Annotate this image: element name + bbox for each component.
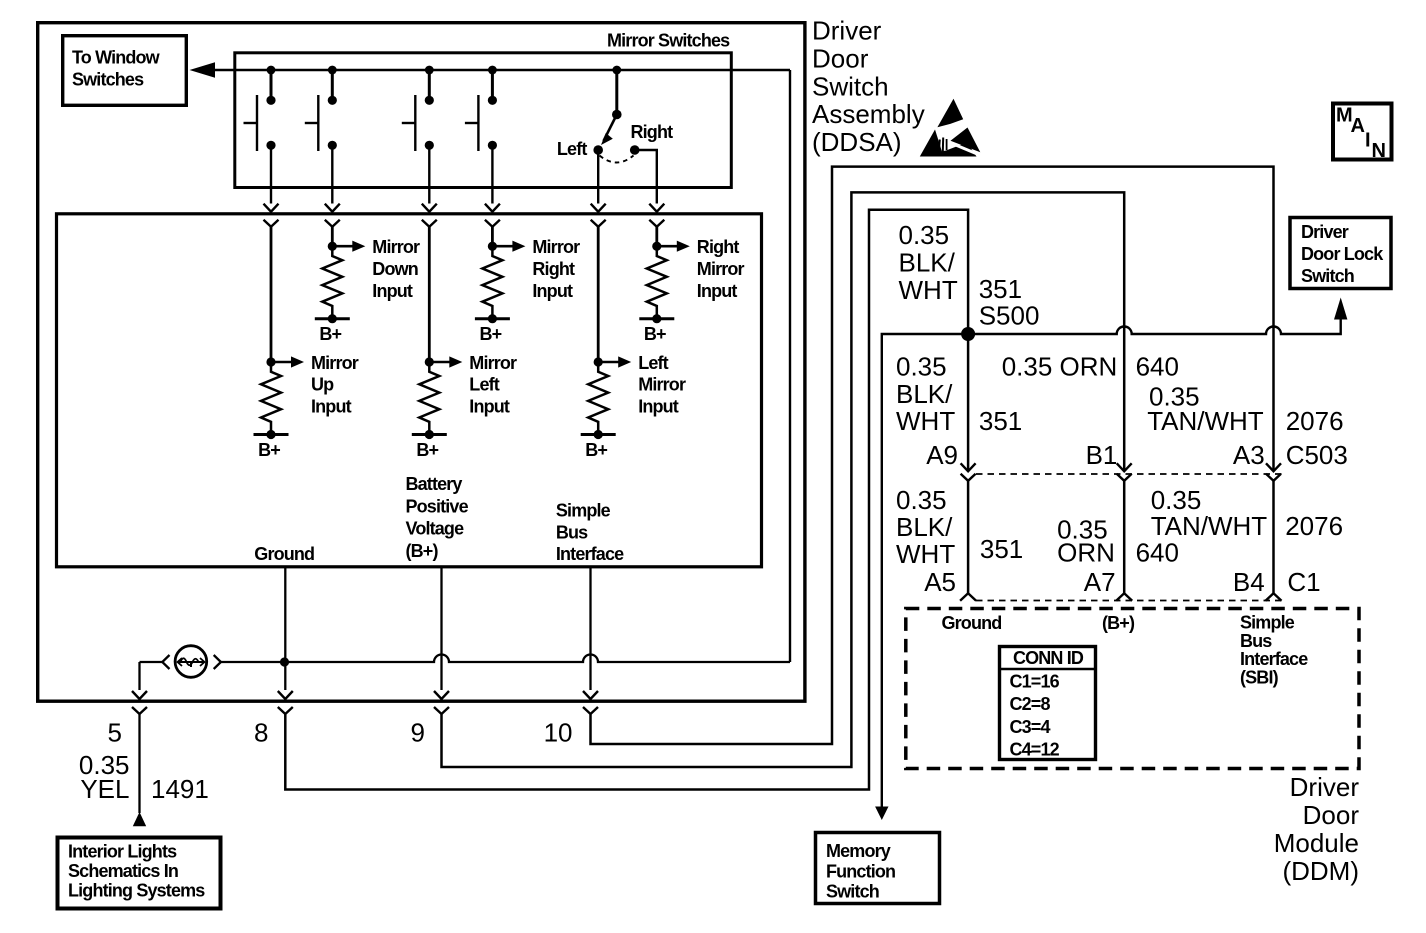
- resistor mirror down input: [315, 241, 366, 345]
- svg-text:B+: B+: [644, 324, 666, 344]
- svg-text:I: I: [1365, 130, 1370, 152]
- svg-text:Door: Door: [812, 44, 869, 74]
- wire 640 lower: [1123, 481, 1126, 594]
- svg-text:Module: Module: [1274, 828, 1359, 858]
- svg-text:Bus: Bus: [556, 522, 588, 542]
- inner switch-assembly box: [57, 214, 762, 567]
- wire B+ feed y=662 with hops over pins 9,10: [221, 655, 790, 663]
- svg-text:Driver: Driver: [1290, 772, 1360, 802]
- svg-text:(B+): (B+): [1102, 613, 1135, 633]
- svg-text:Assembly: Assembly: [812, 99, 925, 129]
- svg-text:351: 351: [979, 274, 1022, 304]
- svg-text:BLK/: BLK/: [896, 379, 953, 409]
- svg-text:To Window: To Window: [72, 48, 161, 68]
- svg-text:Input: Input: [638, 397, 679, 417]
- svg-text:Bus: Bus: [1240, 631, 1272, 651]
- dashed selector arc: [600, 156, 634, 163]
- svg-text:Interior Lights: Interior Lights: [68, 842, 177, 862]
- wire: rail down right side (B+ feed): [789, 70, 791, 662]
- entry into assembly: left mirror: [591, 204, 606, 227]
- dashed connector line row 2: [976, 600, 1283, 602]
- DDSA outer box: [38, 23, 805, 702]
- node Left contact: [593, 145, 603, 155]
- svg-text:C1=16: C1=16: [1010, 671, 1060, 691]
- svg-text:C503: C503: [1286, 440, 1348, 470]
- svg-text:Input: Input: [311, 397, 352, 417]
- svg-text:Left: Left: [469, 375, 499, 395]
- resistor mirror left input: [412, 356, 463, 460]
- svg-text:Battery: Battery: [406, 474, 463, 494]
- svg-text:Lighting Systems: Lighting Systems: [68, 881, 205, 901]
- wire 0.35 BLK/WHT 351 (pin 8 ground net): [285, 210, 968, 790]
- svg-text:640: 640: [1136, 538, 1179, 568]
- wire pin 5 drop: [138, 662, 140, 690]
- DDM dashed box: [906, 609, 1359, 769]
- svg-text:WHT: WHT: [899, 275, 958, 305]
- svg-text:2076: 2076: [1285, 511, 1343, 541]
- svg-text:WHT: WHT: [896, 539, 955, 569]
- mirror switches box: [235, 53, 732, 188]
- svg-text:(B+): (B+): [406, 541, 439, 561]
- svg-text:Switch: Switch: [1301, 266, 1354, 286]
- svg-text:Driver: Driver: [812, 16, 882, 46]
- svg-text:Schematics In: Schematics In: [68, 861, 178, 881]
- arrow to window switches: [190, 62, 216, 77]
- inline connector symbol (B+ feed): [140, 646, 221, 678]
- arrow into interior lights reference: [133, 812, 146, 826]
- entry into assembly: mirror left: [422, 204, 437, 227]
- To Window Switches box: [63, 36, 187, 106]
- svg-text:C1: C1: [1287, 567, 1320, 597]
- wire S500 splice rail with hops: [882, 319, 1341, 807]
- svg-text:(SBI): (SBI): [1240, 667, 1279, 687]
- svg-text:8: 8: [254, 718, 268, 748]
- svg-text:A3: A3: [1233, 440, 1265, 470]
- svg-text:Down: Down: [372, 259, 418, 279]
- svg-text:(DDSA): (DDSA): [812, 127, 902, 157]
- svg-text:BLK/: BLK/: [899, 248, 956, 278]
- wire right contact down: [635, 150, 657, 204]
- entry into assembly: mirror up: [264, 204, 279, 227]
- svg-text:1491: 1491: [151, 774, 209, 804]
- svg-text:Mirror Switches: Mirror Switches: [607, 31, 730, 51]
- wire 0.35 TAN/WHT 2076 (pin 10 SBI net): [591, 167, 1274, 744]
- svg-text:Interface: Interface: [556, 544, 624, 564]
- svg-text:TAN/WHT: TAN/WHT: [1147, 406, 1264, 436]
- svg-text:Up: Up: [311, 375, 334, 395]
- svg-text:Input: Input: [469, 397, 510, 417]
- resistor mirror right input: [475, 241, 526, 345]
- resistor mirror up input: [254, 356, 305, 460]
- svg-text:Switches: Switches: [72, 70, 144, 90]
- node Right contact: [630, 145, 640, 155]
- wire stems inside assembly: [270, 227, 273, 363]
- entry into assembly: right mirror: [649, 204, 664, 227]
- DDSA bottom pin 10 connector: [583, 691, 598, 714]
- svg-text:0.35 ORN: 0.35 ORN: [1002, 352, 1118, 382]
- svg-text:0.35: 0.35: [899, 220, 950, 250]
- svg-text:Ground: Ground: [942, 613, 1002, 633]
- wire 0.35 YEL 1491: [138, 715, 140, 814]
- MAIN reference box: [1333, 104, 1392, 160]
- svg-text:A: A: [1351, 115, 1365, 137]
- svg-text:10: 10: [544, 718, 573, 748]
- CONN ID table: [1000, 647, 1096, 760]
- DDSA bottom pin 5 connector: [132, 691, 147, 714]
- wire: switch common rail: [213, 69, 790, 71]
- svg-text:(DDM): (DDM): [1282, 856, 1359, 886]
- svg-text:Memory: Memory: [826, 841, 891, 861]
- svg-text:Mirror: Mirror: [372, 237, 420, 257]
- wire 2076 lower: [1272, 481, 1275, 594]
- switch SW1 mirror up: [244, 66, 276, 204]
- svg-text:Input: Input: [697, 281, 738, 301]
- svg-text:Input: Input: [532, 281, 573, 301]
- svg-text:ORN: ORN: [1057, 538, 1115, 568]
- switch SW2 mirror down: [305, 66, 337, 204]
- svg-text:B1: B1: [1086, 440, 1118, 470]
- svg-text:640: 640: [1136, 352, 1179, 382]
- svg-text:Door Lock: Door Lock: [1301, 244, 1384, 264]
- entry into assembly: mirror down: [325, 204, 340, 227]
- splice S500: [961, 327, 975, 341]
- svg-text:Mirror: Mirror: [311, 353, 359, 373]
- svg-text:A9: A9: [926, 440, 958, 470]
- svg-text:Left: Left: [557, 139, 587, 159]
- svg-text:B+: B+: [479, 324, 501, 344]
- switch SW3 mirror left: [402, 66, 434, 204]
- svg-text:N: N: [1372, 140, 1386, 162]
- svg-text:Left: Left: [638, 353, 668, 373]
- wire pin 10 (SBI) inside DDSA: [589, 567, 591, 690]
- svg-text:Mirror: Mirror: [697, 259, 745, 279]
- svg-text:TAN/WHT: TAN/WHT: [1151, 511, 1268, 541]
- svg-text:Simple: Simple: [556, 501, 611, 521]
- wire pin 9 (B+) inside DDSA: [440, 567, 442, 690]
- svg-text:351: 351: [980, 534, 1023, 564]
- switch SW4 mirror right: [465, 66, 497, 204]
- junction B+ feed to pin 8 column? (splice): [280, 657, 289, 666]
- svg-text:B+: B+: [585, 440, 607, 460]
- svg-text:C2=8: C2=8: [1010, 694, 1051, 714]
- svg-text:BLK/: BLK/: [896, 512, 953, 542]
- svg-text:Right: Right: [532, 259, 575, 279]
- arrow to Driver Door Lock Switch: [1334, 298, 1347, 320]
- wire pin 8 (ground) inside DDSA: [284, 567, 286, 690]
- svg-text:9: 9: [411, 718, 425, 748]
- wire left contact down: [597, 150, 599, 204]
- ESD sensitive device symbol: [920, 99, 988, 159]
- svg-text:YEL: YEL: [80, 774, 129, 804]
- svg-text:Input: Input: [372, 281, 413, 301]
- svg-text:B+: B+: [319, 324, 341, 344]
- svg-text:B+: B+: [258, 440, 280, 460]
- svg-text:C4=12: C4=12: [1010, 740, 1060, 760]
- svg-text:Mirror: Mirror: [469, 353, 517, 373]
- svg-text:S500: S500: [979, 301, 1040, 331]
- arrow to Memory Function Switch: [875, 807, 888, 821]
- svg-text:Mirror: Mirror: [532, 237, 580, 257]
- svg-text:Switch: Switch: [826, 882, 879, 902]
- svg-text:5: 5: [108, 718, 122, 748]
- Interior Lights reference box: [58, 838, 221, 909]
- svg-text:WHT: WHT: [896, 406, 955, 436]
- wire 351 lower: [967, 481, 970, 594]
- svg-text:0.35: 0.35: [896, 352, 947, 382]
- svg-text:C3=4: C3=4: [1010, 717, 1051, 737]
- svg-text:Function: Function: [826, 861, 895, 881]
- svg-text:Interface: Interface: [1240, 649, 1308, 669]
- connector row 2 (C1 into DDM): [960, 593, 976, 601]
- entry into assembly: mirror right: [485, 204, 500, 227]
- svg-text:Mirror: Mirror: [638, 375, 686, 395]
- svg-text:Positive: Positive: [406, 496, 469, 516]
- svg-text:B+: B+: [416, 440, 438, 460]
- svg-text:Driver: Driver: [1301, 222, 1349, 242]
- selector switch Left/Right: [557, 66, 673, 204]
- svg-text:Right: Right: [631, 122, 674, 142]
- svg-text:2076: 2076: [1286, 406, 1344, 436]
- svg-text:Simple: Simple: [1240, 613, 1295, 633]
- DDSA bottom pin 8 connector: [278, 691, 293, 714]
- svg-text:A7: A7: [1084, 567, 1116, 597]
- svg-text:B4: B4: [1233, 567, 1265, 597]
- Memory Function Switch box: [816, 833, 940, 904]
- CONN ID header line: [1000, 668, 1096, 671]
- wire 0.35 ORN 640 (pin 9 B+ net): [442, 192, 1125, 767]
- resistor left mirror input: [581, 356, 632, 460]
- svg-text:Right: Right: [697, 237, 740, 257]
- resistor right mirror input: [639, 241, 690, 345]
- svg-text:CONN ID: CONN ID: [1013, 648, 1084, 668]
- svg-text:351: 351: [979, 406, 1022, 436]
- connector row 1 (C503): [961, 463, 976, 481]
- Driver Door Lock Switch box: [1290, 218, 1391, 289]
- svg-text:Switch: Switch: [812, 71, 889, 101]
- svg-text:0.35: 0.35: [896, 485, 947, 515]
- svg-text:Ground: Ground: [254, 544, 314, 564]
- dashed connector line row 1: [976, 473, 1283, 475]
- svg-text:A5: A5: [924, 567, 956, 597]
- svg-text:Door: Door: [1303, 800, 1360, 830]
- DDSA bottom pin 9 connector: [434, 691, 449, 714]
- svg-text:Voltage: Voltage: [406, 519, 465, 539]
